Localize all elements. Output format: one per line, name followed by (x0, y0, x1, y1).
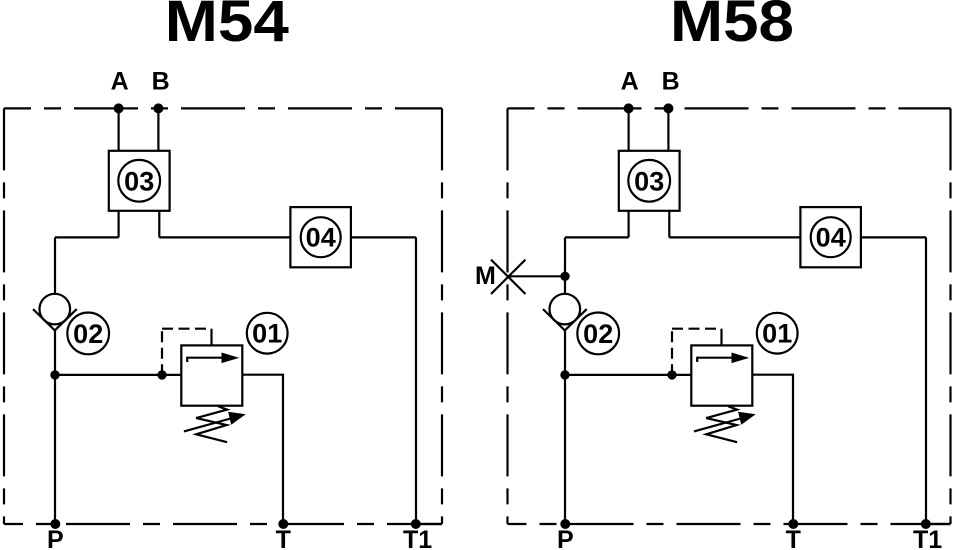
svg-text:M54: M54 (165, 0, 289, 54)
svg-text:M: M (475, 262, 496, 290)
svg-text:M58: M58 (670, 0, 794, 54)
